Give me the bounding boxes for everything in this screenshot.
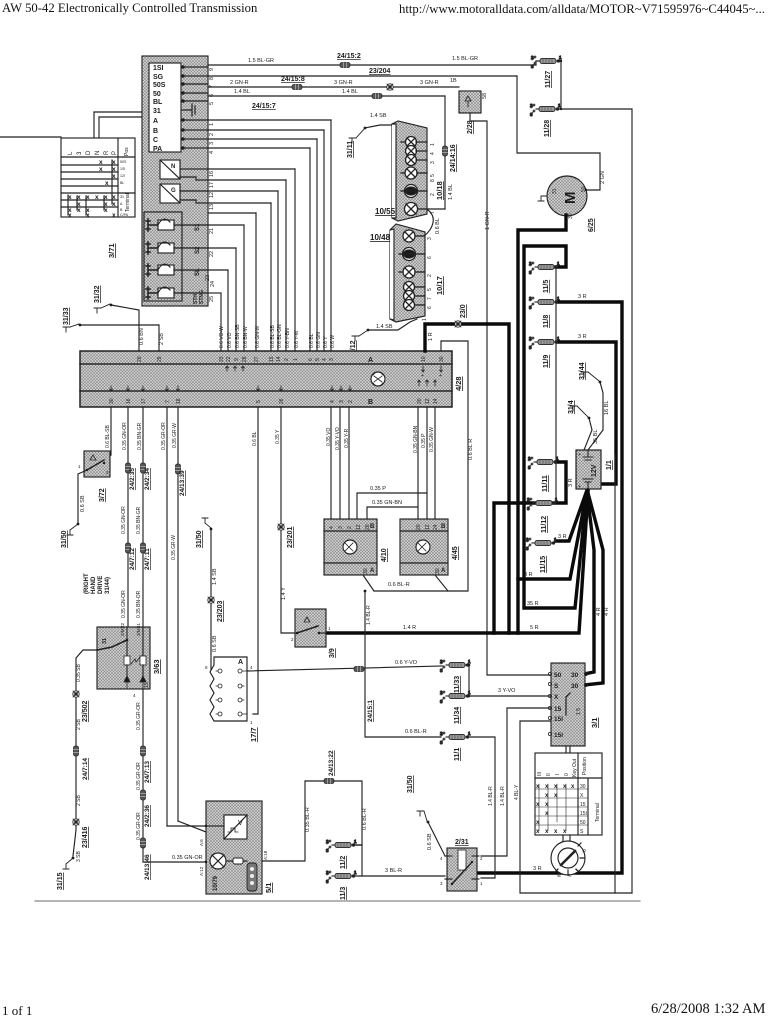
svg-text:0.35 BN-GR: 0.35 BN-GR	[137, 422, 143, 450]
splice 23/416	[73, 819, 79, 825]
speed sensor G	[160, 184, 208, 203]
fuse 11/15	[526, 537, 557, 573]
wires 4/28 B pins to relay 4/45	[417, 407, 419, 519]
svg-text:0.6 SB: 0.6 SB	[80, 495, 86, 512]
svg-text:11/15: 11/15	[540, 556, 547, 573]
fuse 11/9	[529, 336, 560, 368]
footer page	[2, 1003, 32, 1019]
svg-text:0.35 Y: 0.35 Y	[275, 429, 281, 444]
svg-text:0.6 Y-BN: 0.6 Y-BN	[285, 328, 291, 348]
battery 1/1	[576, 450, 613, 492]
svg-text:1SI: 1SI	[153, 65, 164, 72]
svg-text:S2: S2	[195, 246, 201, 254]
connector 24/2:36	[141, 790, 146, 800]
svg-text:0.35 P: 0.35 P	[421, 433, 427, 448]
svg-text:10/18: 10/18	[435, 181, 444, 200]
splice 23/204	[387, 84, 393, 90]
header url	[399, 2, 765, 17]
svg-text:1.5 BL-GR: 1.5 BL-GR	[248, 58, 274, 64]
svg-text:7: 7	[165, 400, 171, 403]
svg-text:31/50: 31/50	[61, 530, 68, 548]
svg-text:11/27: 11/27	[545, 71, 552, 88]
svg-text:11/11: 11/11	[542, 475, 549, 492]
connector 24/15:1	[354, 667, 364, 672]
svg-text:9: 9	[234, 358, 240, 361]
svg-text:1.4 SB: 1.4 SB	[370, 113, 387, 119]
svg-text:0.6 Y-VO: 0.6 Y-VO	[395, 660, 418, 666]
svg-text:35 BL: 35 BL	[593, 430, 599, 444]
wire 0.6 BL-R supply to 11/1	[364, 590, 441, 737]
svg-text:31/50: 31/50	[407, 775, 414, 793]
svg-text:30: 30	[571, 683, 579, 690]
svg-text:0.35 BN-GR: 0.35 BN-GR	[136, 506, 142, 534]
connector 24/14:16	[443, 146, 448, 156]
svg-text:31/44: 31/44	[579, 362, 586, 380]
pin wires 3/71 connector	[181, 66, 208, 149]
key cylinder	[551, 835, 587, 878]
wire 0.6 BL 10/55 to 10/48	[424, 210, 433, 236]
svg-text:0.35 BL-R: 0.35 BL-R	[305, 807, 311, 832]
wire 1.4 BL-R ignition 15 to 2/31	[481, 708, 552, 856]
svg-text:C: C	[153, 137, 158, 144]
svg-text:x: x	[112, 173, 116, 180]
svg-text:A:12: A:12	[199, 866, 204, 876]
svg-text:x: x	[95, 194, 99, 201]
svg-text:6: 6	[308, 358, 314, 361]
svg-text:0.6 BL-R: 0.6 BL-R	[388, 582, 410, 588]
svg-text:17: 17	[141, 398, 147, 404]
svg-text:0.35 GN-OR: 0.35 GN-OR	[122, 422, 128, 450]
svg-text:24/2:35: 24/2:35	[129, 468, 136, 490]
wire 4 BL-Y ignition 15I loop	[520, 721, 632, 893]
svg-text:1: 1	[430, 143, 436, 146]
svg-text:24/2:34: 24/2:34	[144, 468, 151, 490]
svg-text:11/33: 11/33	[454, 676, 461, 693]
svg-text:0.6 BL-R: 0.6 BL-R	[405, 729, 427, 735]
svg-text:0.6 BN-W: 0.6 BN-W	[243, 326, 249, 348]
svg-text:1: 1	[328, 626, 331, 631]
svg-text:0.6 BL-R: 0.6 BL-R	[362, 808, 368, 830]
svg-text:23/502: 23/502	[82, 700, 89, 722]
ground 31/15	[57, 857, 74, 890]
svg-text:31/33: 31/33	[63, 307, 70, 325]
svg-text:P: P	[112, 151, 118, 155]
wire 11/1 to 1.4 BL-R vertical	[467, 737, 495, 878]
svg-text:HAND: HAND	[91, 576, 97, 594]
wire battery to ignition 30 second 4R	[584, 493, 603, 685]
svg-text:30: 30	[363, 568, 369, 574]
svg-text:1: 1	[78, 464, 81, 469]
svg-text:23/0: 23/0	[460, 304, 467, 318]
wire 3 R row to battery	[518, 491, 587, 579]
svg-text:10/55: 10/55	[375, 207, 396, 216]
svg-text:4: 4	[322, 358, 328, 361]
svg-text:15I: 15I	[554, 732, 563, 739]
svg-text:0.6 BL-SB: 0.6 BL-SB	[270, 325, 276, 348]
svg-text:0.35 GR-OR: 0.35 GR-OR	[136, 762, 142, 790]
svg-text:DRIVE: DRIVE	[98, 576, 104, 594]
svg-text:1 GN-R: 1 GN-R	[485, 211, 491, 230]
svg-text:4: 4	[330, 400, 336, 403]
svg-text:0.6 W: 0.6 W	[330, 335, 336, 348]
svg-text:0.6 BL-SB: 0.6 BL-SB	[105, 425, 111, 448]
svg-text:N: N	[171, 164, 175, 170]
wire 3 BL-R to 2/31	[362, 868, 445, 876]
svg-text:5: 5	[427, 288, 433, 291]
svg-text:8: 8	[205, 665, 208, 670]
fuse 11/12	[527, 497, 558, 533]
svg-text:11/9: 11/9	[543, 355, 550, 368]
svg-text:24: 24	[210, 281, 216, 287]
svg-text:12: 12	[425, 398, 431, 404]
svg-text:50: 50	[153, 91, 161, 98]
svg-text:10/48: 10/48	[370, 233, 391, 242]
ground 31/33	[63, 307, 165, 351]
wires 4/28 B pins to relay 4/10	[330, 407, 332, 519]
splice 23/0	[455, 321, 461, 327]
svg-text:10/79: 10/79	[213, 875, 219, 891]
thick battery wires	[326, 215, 622, 873]
svg-text:1.4 Y: 1.4 Y	[281, 587, 287, 600]
wire 2 GN-R / 3 GN-R pin7 to 2/28	[208, 78, 459, 87]
connector 24/15:2	[340, 63, 350, 68]
svg-text:1B: 1B	[450, 78, 457, 84]
svg-text:4/10: 4/10	[381, 548, 388, 562]
svg-text:III: III	[537, 772, 543, 776]
svg-text:3 GN-R: 3 GN-R	[420, 80, 439, 86]
svg-text:0.6 BN-SB: 0.6 BN-SB	[235, 324, 241, 348]
svg-text:6: 6	[427, 306, 433, 309]
svg-text:4/28: 4/28	[454, 376, 463, 391]
fuse 11/11	[528, 456, 559, 492]
svg-text:1 5: 1 5	[576, 708, 582, 715]
solenoid block	[144, 212, 208, 304]
svg-text:1.4 BL-R: 1.4 BL-R	[488, 786, 494, 806]
svg-text:V: V	[238, 820, 243, 827]
svg-text:23/416: 23/416	[82, 826, 89, 848]
svg-text:24: 24	[433, 524, 439, 530]
svg-text:0.35 GN-OR: 0.35 GN-OR	[172, 855, 203, 861]
svg-text:24/7:11: 24/7:11	[144, 548, 151, 570]
wire nest 3/71 to 4/28	[208, 120, 331, 351]
svg-text:1.5 BL-GR: 1.5 BL-GR	[452, 56, 478, 62]
svg-text:24/15:7: 24/15:7	[252, 103, 276, 110]
note right hand drive	[84, 573, 111, 594]
svg-text:4: 4	[329, 526, 335, 529]
svg-text:3/MS1: 3/MS1	[136, 622, 141, 636]
svg-text:5: 5	[209, 102, 215, 105]
svg-text:C/PA: C/PA	[120, 213, 129, 217]
svg-text:20: 20	[416, 524, 422, 530]
svg-text:11/5: 11/5	[543, 280, 550, 293]
wire 0.35 Y / 1.4 Y pin26 to 3/9	[281, 407, 297, 633]
wire 0.6 SB 3/72 to ground	[78, 470, 87, 524]
footer date	[651, 1001, 765, 1018]
svg-text:31/44): 31/44)	[105, 577, 111, 594]
wire 1 GN-R from 2/28 down to ignition 50	[470, 113, 552, 675]
voltage stabilizer 5/1	[199, 801, 273, 894]
instrument cluster 10/48	[370, 224, 444, 322]
wire battery to ignition 30	[584, 492, 594, 674]
svg-text:SL: SL	[195, 268, 201, 276]
svg-text:50S: 50S	[153, 82, 166, 89]
svg-text:24/14:16: 24/14:16	[450, 144, 457, 172]
svg-text:1: 1	[250, 720, 253, 725]
connector 24/13:39	[176, 464, 181, 474]
wire page edge to table	[0, 136, 61, 138]
svg-text:20: 20	[137, 356, 143, 362]
svg-text:23/203: 23/203	[217, 600, 224, 622]
svg-text:12: 12	[425, 524, 431, 530]
svg-text:16: 16	[126, 398, 132, 404]
connector 24/15:7 label	[372, 94, 382, 99]
svg-text:1.4 SB: 1.4 SB	[212, 568, 218, 585]
svg-text:A: A	[441, 568, 446, 574]
svg-text:0.35 GN-OR: 0.35 GN-OR	[121, 590, 127, 618]
svg-text:24/13:22: 24/13:22	[328, 750, 335, 776]
svg-text:3 R: 3 R	[558, 534, 567, 540]
gear selector 3/63	[97, 622, 161, 698]
svg-text:1.4 BL: 1.4 BL	[342, 89, 358, 95]
svg-text:21: 21	[209, 228, 215, 234]
relay 4/10	[324, 519, 388, 575]
svg-text:31: 31	[102, 638, 108, 644]
header title	[2, 1, 257, 16]
svg-text:6/25: 6/25	[588, 218, 595, 232]
svg-text:Terminal: Terminal	[595, 803, 601, 822]
wire 0.35 GR-W chain pin18	[177, 407, 179, 821]
pin arrows inside band	[110, 366, 443, 391]
wire 0.35 GN-BN cross	[367, 500, 418, 519]
svg-text:3: 3	[430, 161, 436, 164]
wire 11/8 3 R to 2/31	[477, 302, 622, 873]
svg-text:BL: BL	[120, 181, 124, 185]
svg-text:2: 2	[347, 526, 353, 529]
svg-text:8: 8	[209, 77, 215, 80]
svg-text:1 R: 1 R	[428, 332, 434, 341]
svg-text:16 BL: 16 BL	[604, 401, 610, 415]
svg-text:15: 15	[554, 706, 562, 713]
svg-text:1.4 BL: 1.4 BL	[448, 184, 454, 200]
svg-text:x: x	[86, 194, 90, 201]
svg-text:x: x	[99, 166, 103, 173]
svg-text:3 R: 3 R	[578, 294, 587, 300]
svg-text:20: 20	[417, 398, 423, 404]
svg-text:0.35 GR-OR: 0.35 GR-OR	[161, 422, 167, 450]
svg-text:X: X	[554, 694, 559, 701]
wire table to 3/71	[93, 112, 95, 138]
svg-text:S1: S1	[195, 223, 201, 231]
svg-text:STNG: STNG	[199, 290, 205, 304]
svg-text:2: 2	[427, 274, 433, 277]
svg-text:3/1: 3/1	[590, 718, 599, 728]
ground 31/4	[568, 400, 599, 450]
svg-text:24/2:36: 24/2:36	[144, 805, 151, 827]
svg-text:PA: PA	[153, 146, 162, 153]
svg-text:1SI: 1SI	[120, 167, 125, 171]
svg-text:24/7:13: 24/7:13	[144, 761, 151, 783]
svg-text:22: 22	[226, 356, 232, 362]
wire relay 30 outputs 0.6 BL-R	[363, 575, 448, 591]
fuse 11/5	[529, 261, 560, 293]
svg-text:0.35 GR-OR: 0.35 GR-OR	[136, 812, 142, 840]
svg-text:Terminal: Terminal	[125, 193, 131, 212]
wire ignition to key table	[566, 746, 570, 753]
svg-text:4: 4	[133, 693, 136, 698]
svg-text:12: 12	[356, 524, 362, 530]
ignition switch 3/1	[548, 663, 599, 746]
svg-text:28: 28	[242, 356, 248, 362]
svg-text:31/15: 31/15	[57, 872, 64, 890]
thin supply wire fuse column	[555, 267, 557, 503]
svg-text:29: 29	[157, 356, 163, 362]
svg-text:3 BL-R: 3 BL-R	[385, 868, 402, 874]
svg-text:x: x	[86, 212, 90, 219]
splice 23/201	[278, 524, 284, 530]
ground 31/12	[350, 319, 417, 358]
wire table to 3/71 second	[98, 117, 100, 138]
svg-text:x: x	[112, 159, 116, 166]
ground 31/50 right	[407, 775, 445, 856]
svg-text:4: 4	[209, 151, 215, 154]
svg-text:0.6 Y-W: 0.6 Y-W	[294, 330, 300, 348]
wire 0.35 BN-GR chain pin17	[142, 407, 144, 627]
svg-text:22: 22	[209, 251, 215, 257]
connector 24/2:34	[141, 463, 146, 473]
svg-text:0.35 GN-BN: 0.35 GN-BN	[372, 500, 402, 506]
wire 1 R from 4/28 pin 10	[425, 324, 509, 633]
fuse 11/3	[326, 870, 357, 900]
svg-text:0.6 VO-W: 0.6 VO-W	[219, 326, 225, 348]
svg-text:13: 13	[209, 204, 215, 210]
svg-text:11/8: 11/8	[543, 315, 550, 328]
svg-text:+: +	[421, 373, 424, 379]
svg-text:31/4: 31/4	[568, 400, 575, 414]
fuse 11/34	[440, 690, 471, 724]
fuse 11/27	[531, 55, 562, 88]
thick wire labels	[403, 294, 610, 631]
wire 0.35 SB 3/63 pin 31 chain to ground 31/15	[73, 650, 97, 862]
svg-text:1.4 BL: 1.4 BL	[234, 89, 250, 95]
wire 0.35 GR-OR pin7 to 5/1	[166, 407, 168, 826]
svg-text:R: R	[104, 150, 110, 155]
svg-text:A: A	[368, 357, 373, 364]
wire 3 Y-VO 11/34 to ignition X	[467, 688, 552, 696]
svg-text:0.35 P: 0.35 P	[370, 486, 386, 492]
svg-text:0: 0	[564, 773, 570, 776]
svg-text:23/204: 23/204	[369, 68, 391, 75]
svg-text:M: M	[562, 192, 579, 205]
svg-text:2 SB: 2 SB	[76, 794, 82, 806]
svg-text:3 R: 3 R	[533, 866, 542, 872]
svg-text:11/28: 11/28	[544, 120, 551, 137]
svg-text:4 R: 4 R	[596, 607, 602, 616]
svg-text:50: 50	[554, 672, 562, 679]
svg-text:31: 31	[552, 188, 558, 194]
fuse 11/1	[440, 731, 471, 761]
svg-text:A: A	[153, 118, 158, 125]
svg-text:25: 25	[209, 296, 215, 302]
bottom divider	[35, 900, 640, 902]
svg-text:(RIGHT: (RIGHT	[84, 573, 90, 594]
svg-text:0.6 BL-GN: 0.6 BL-GN	[277, 324, 283, 348]
wire 0.6 BL-SB pin30 to 3/72	[110, 407, 112, 455]
splice 23/203	[208, 597, 214, 603]
svg-text:0.6 BL: 0.6 BL	[435, 218, 441, 234]
svg-text:12V: 12V	[591, 464, 598, 477]
wire labels above 4/28	[219, 324, 336, 348]
switch 3/72	[78, 451, 110, 502]
svg-text:30: 30	[439, 356, 445, 362]
ground 31/32	[94, 285, 145, 351]
connector 24/7:13	[141, 746, 146, 756]
svg-text:15: 15	[269, 356, 275, 362]
relay 4/45	[400, 519, 459, 575]
svg-text:3/72: 3/72	[99, 488, 106, 502]
svg-text:3 R: 3 R	[568, 478, 574, 487]
wire 0.6 Y-VO 17/7 to 11/33	[247, 660, 443, 671]
wire 11/33 join 11/34	[466, 665, 469, 696]
svg-text:1.4 SB: 1.4 SB	[376, 324, 393, 330]
wire 11/2 to 11/3	[354, 845, 362, 876]
svg-text:0.35 GR-W: 0.35 GR-W	[171, 535, 177, 560]
svg-text:1.4 BL-R: 1.4 BL-R	[500, 786, 506, 806]
svg-text:24/7:12: 24/7:12	[129, 548, 136, 570]
svg-text:3 SB: 3 SB	[76, 850, 82, 862]
svg-text:I: I	[555, 774, 561, 775]
ground 31/11	[347, 113, 392, 158]
transmission unit 3/71	[107, 56, 216, 306]
wire motor 30 down	[518, 215, 566, 633]
svg-text:A:18: A:18	[263, 850, 268, 860]
svg-text:x: x	[104, 207, 108, 214]
ground 31/44	[579, 362, 610, 450]
svg-text:x: x	[77, 194, 81, 201]
31 termination symbol	[186, 104, 195, 116]
svg-text:B: B	[368, 399, 373, 406]
svg-text:x: x	[68, 194, 72, 201]
svg-text:2 SB: 2 SB	[159, 333, 165, 345]
svg-text:Pos: Pos	[124, 147, 130, 156]
wire labels below 4/28	[105, 422, 435, 453]
wire 11/12 row to 5R	[494, 503, 548, 633]
svg-text:3/71: 3/71	[107, 243, 116, 258]
svg-text:2: 2	[284, 358, 290, 361]
instrument cluster 10/55	[375, 121, 444, 221]
svg-text:31: 31	[153, 108, 161, 115]
svg-text:x: x	[104, 194, 108, 201]
svg-text:2: 2	[291, 637, 294, 642]
svg-text:24/15:2: 24/15:2	[337, 53, 361, 60]
svg-text:4: 4	[430, 152, 436, 155]
svg-text:9: 9	[209, 68, 215, 71]
svg-text:2: 2	[480, 856, 483, 861]
svg-text:3: 3	[440, 881, 443, 886]
svg-text:x: x	[77, 207, 81, 214]
svg-text:11/12: 11/12	[541, 516, 548, 533]
bottom pin numbers	[109, 398, 439, 404]
connector 17/7	[205, 657, 258, 742]
svg-text:31/11: 31/11	[347, 141, 354, 158]
svg-text:27: 27	[254, 356, 260, 362]
splice 23/502	[73, 691, 79, 697]
svg-text:1.4 R: 1.4 R	[403, 625, 416, 631]
wire 1.4 BL pin6 to cluster 10/55 pin 7	[208, 89, 454, 209]
svg-text:A: A	[238, 659, 243, 666]
svg-text:0.6 BL R: 0.6 BL R	[468, 439, 474, 460]
svg-text:B: B	[441, 524, 446, 530]
svg-text:x: x	[112, 194, 116, 201]
